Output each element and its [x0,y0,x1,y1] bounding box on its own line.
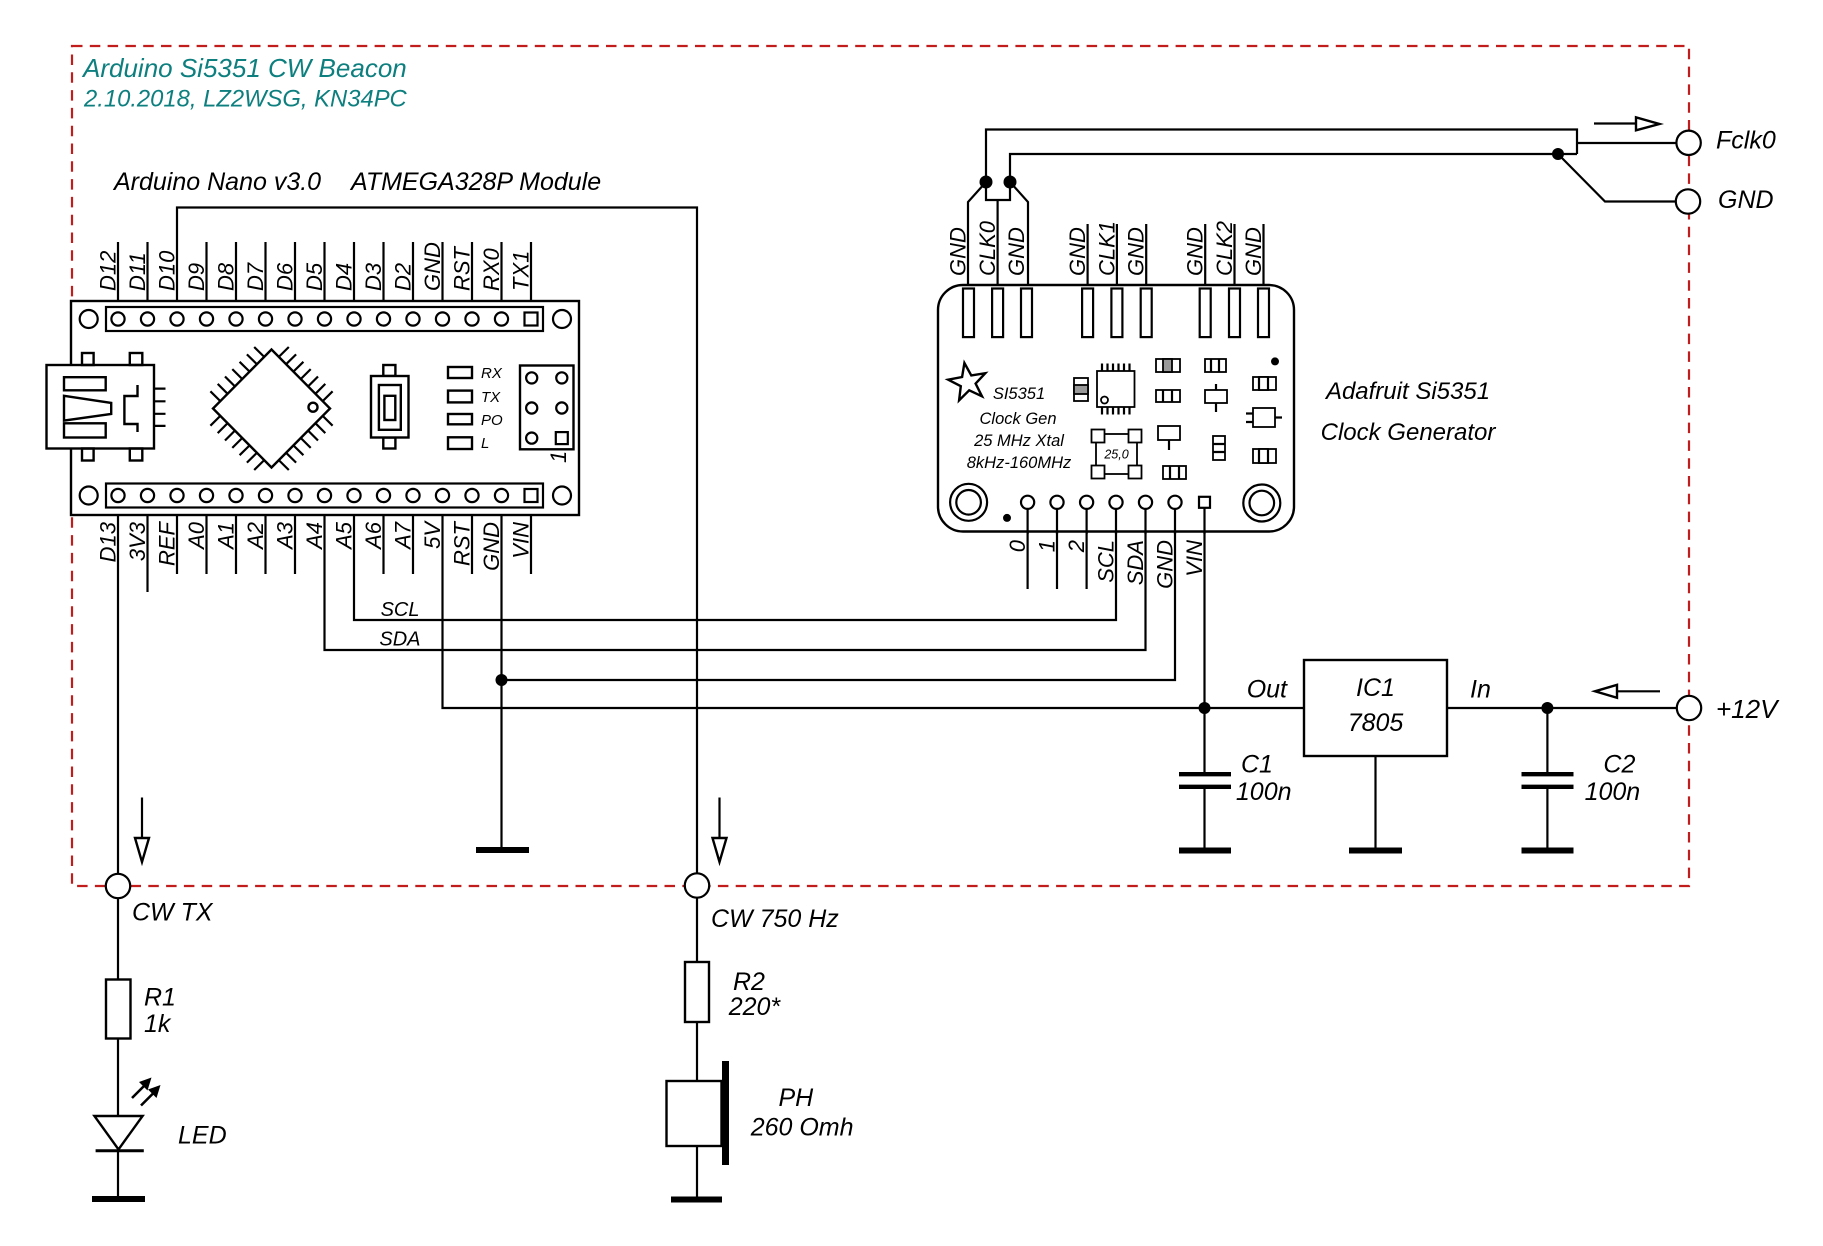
svg-text:GND: GND [1241,227,1266,276]
speaker PH [667,1061,730,1165]
Arduino top pin strip [106,307,543,331]
fiducial dot bottom left [1003,514,1011,522]
wire VIN Si5351 [1203,508,1205,708]
svg-text:GND: GND [1152,540,1177,589]
svg-text:D12: D12 [96,251,121,291]
wire to GND pin right [1010,182,1028,288]
wire CLK0 bridge to pins [986,182,1010,200]
svg-text:CLK0: CLK0 [975,220,1000,276]
svg-text:RX0: RX0 [479,247,504,291]
wire SDA: A4 to Si5351 SDA [325,502,1146,650]
svg-text:LED: LED [178,1122,227,1150]
svg-text:3V3: 3V3 [125,521,150,561]
svg-text:A7: A7 [391,521,416,551]
svg-text:1: 1 [1034,540,1059,552]
svg-text:GND: GND [1004,227,1029,276]
svg-text:GND: GND [1718,186,1774,214]
wire R2 to PH [696,1022,698,1081]
svg-text:RST: RST [450,245,475,291]
arrow into +12V [1595,685,1660,698]
svg-text:1k: 1k [144,1010,172,1038]
svg-text:GND: GND [1183,227,1208,276]
resistor R1 [106,980,131,1039]
svg-text:D10: D10 [155,250,180,291]
Adafruit star logo [948,363,985,400]
svg-text:SI5351: SI5351 [993,385,1045,403]
svg-text:5V: 5V [420,520,445,549]
resistor R2 [685,962,709,1022]
svg-text:A2: A2 [243,522,268,551]
terminal +12V [1677,696,1701,720]
mounting holes [80,310,98,328]
top pin row pads D12..TX1 [111,312,537,325]
svg-text:100n: 100n [1585,778,1641,806]
Si5351 CLK1/CLK2 group stubs [1088,224,1264,288]
Arduino bottom pin labels [96,520,534,571]
LED labels [481,365,503,452]
Si5351 bottom pin stubs inside module [1028,507,1205,534]
capacitor C2 [1522,708,1574,848]
USB connector [47,353,166,461]
svg-text:PH: PH [779,1084,815,1112]
ground symbol C1 [1179,848,1231,854]
svg-text:RX: RX [481,365,503,382]
svg-text:REF: REF [155,520,180,566]
svg-text:GND: GND [946,227,971,276]
svg-text:2.10.2018, LZ2WSG, KN34PC: 2.10.2018, LZ2WSG, KN34PC [83,86,408,113]
Arduino bottom pin stubs [148,502,532,592]
svg-text:ATMEGA328P Module: ATMEGA328P Module [349,168,601,196]
svg-text:25,0: 25,0 [1103,448,1128,462]
Si5351 top pin labels [946,220,1267,276]
svg-text:C1: C1 [1241,751,1273,779]
svg-text:GND: GND [1124,227,1149,276]
junction GND branch [496,674,508,686]
arrow down CW 750 [713,798,727,863]
svg-text:SCL: SCL [381,599,420,621]
wire D13 to CW TX node [117,502,119,874]
svg-text:2: 2 [1064,540,1089,553]
svg-text:Out: Out [1247,675,1288,703]
svg-text:7805: 7805 [1348,709,1404,737]
IC1 7805 regulator [1304,660,1447,756]
LED D1 [94,1078,160,1151]
svg-text:Adafruit Si5351: Adafruit Si5351 [1324,378,1490,405]
wire CLK0 shield net [1010,154,1577,182]
Si5351 pin 0 stub [1026,509,1028,589]
svg-text:Fclk0: Fclk0 [1716,127,1776,155]
arrow out of Fclk0 [1594,117,1660,130]
svg-text:8kHz-160MHz: 8kHz-160MHz [967,454,1072,472]
node CW TX [106,874,130,898]
svg-text:A4: A4 [302,522,327,551]
Si5351 top pin pads [963,289,1269,338]
svg-text:C2: C2 [1603,751,1635,779]
wire R1 to LED [117,1039,119,1117]
svg-text:1: 1 [546,451,571,463]
Arduino Nano module body [71,301,579,515]
Si5351 IC chip [1097,364,1135,415]
svg-text:GND: GND [479,522,504,571]
svg-text:Arduino Nano v3.0: Arduino Nano v3.0 [112,168,321,196]
wire CW750 to R2 [696,898,698,963]
Si5351 mounting hole left [950,484,987,521]
svg-text:D13: D13 [96,521,121,562]
wire D10 to CW 750 Hz node [177,208,697,874]
svg-text:D8: D8 [214,262,239,291]
svg-text:A3: A3 [273,521,298,551]
wire In / +12V rail [1447,707,1678,709]
Si5351 pin 1 stub [1056,509,1058,589]
junction shield [1552,148,1564,160]
svg-text:Clock Gen: Clock Gen [979,410,1056,428]
svg-text:SDA: SDA [1123,540,1148,585]
dashed boundary [72,46,1689,886]
SMD parts on module [1074,359,1282,479]
RX LED [448,367,472,378]
capacitor C1 [1179,708,1231,848]
Arduino top pin labels [96,242,534,291]
svg-text:220*: 220* [728,993,782,1021]
junction CLK0 right [1004,176,1017,189]
terminal Fclk0 [1676,131,1700,155]
svg-text:TX1: TX1 [509,251,534,291]
svg-text:SDA: SDA [379,629,420,651]
svg-text:L: L [481,435,489,452]
wire CW TX to R1 [117,898,119,980]
svg-text:D11: D11 [125,252,150,291]
Arduino bottom pin strip [106,484,543,508]
wire PH to ground [696,1146,698,1197]
svg-text:A5: A5 [332,521,357,551]
junction 5V / VIN / C1 [1199,702,1211,714]
svg-text:VIN: VIN [509,522,534,559]
wire IC1 ground [1374,756,1376,848]
Adafruit Si5351 module body [938,285,1294,532]
wire GND: Arduino GND to ground and Si5351 GND [500,502,502,847]
Si5351 silk text [967,385,1072,472]
ISP header [520,366,574,450]
Si5351 bottom pin labels [1005,539,1207,589]
svg-text:CW TX: CW TX [132,899,214,927]
wire LED to ground [117,1151,119,1196]
L LED [448,437,472,449]
ground symbol Arduino GND [476,847,529,853]
svg-text:+12V: +12V [1716,694,1780,724]
ATMEGA328P chip (diamond) [210,347,332,470]
node CW 750 Hz [685,873,709,897]
bottom pin row pads D13..VIN [111,489,537,502]
svg-text:Clock Generator: Clock Generator [1321,419,1497,446]
25 MHz crystal [1092,430,1142,479]
svg-text:A1: A1 [214,522,239,551]
svg-text:VIN: VIN [1182,540,1207,577]
svg-text:GND: GND [420,242,445,291]
svg-text:SCL: SCL [1093,540,1118,583]
Si5351 pin 2 stub [1085,509,1087,589]
svg-text:D6: D6 [273,262,298,291]
ground symbol LED [92,1196,145,1202]
wire SCL: A5 to Si5351 SCL [354,502,1116,620]
svg-text:TX: TX [481,389,501,406]
svg-text:CLK1: CLK1 [1094,221,1119,276]
svg-text:D9: D9 [184,263,209,291]
svg-text:IC1: IC1 [1356,674,1395,702]
wire shield to GND terminal [1558,154,1677,202]
fiducial dot top right [1271,357,1279,365]
svg-text:D3: D3 [361,262,386,291]
svg-text:100n: 100n [1236,778,1292,806]
arrow down CW TX [135,798,149,863]
Arduino top pin stubs [118,242,531,313]
svg-text:D2: D2 [391,263,416,291]
svg-text:A6: A6 [361,521,386,551]
ground symbol C2 [1522,848,1574,854]
svg-text:0: 0 [1005,539,1030,552]
svg-text:PO: PO [481,412,503,429]
junction CLK0 left [980,176,993,189]
junction In / C2 [1541,702,1553,714]
PO LED [448,414,472,424]
svg-text:CW 750 Hz: CW 750 Hz [711,905,839,933]
svg-text:RST: RST [450,520,475,566]
svg-text:D5: D5 [302,262,327,291]
terminal GND [1676,189,1700,213]
ground symbol IC1 [1349,848,1402,854]
svg-text:25 MHz Xtal: 25 MHz Xtal [973,432,1065,450]
svg-text:D4: D4 [332,263,357,291]
wire 5V / Out rail [443,502,1305,708]
Si5351 mounting hole right [1243,485,1280,522]
wire CLK0 net to Fclk0 terminal [986,130,1577,183]
svg-text:260 Omh: 260 Omh [750,1114,854,1142]
svg-text:R1: R1 [144,984,176,1012]
svg-text:CLK2: CLK2 [1212,221,1237,276]
svg-text:Arduino Si5351 CW Beacon: Arduino Si5351 CW Beacon [81,53,407,83]
ground symbol PH [671,1197,722,1203]
svg-text:GND: GND [1065,227,1090,276]
reset button [371,365,409,449]
wire to GND pin left [968,182,986,288]
TX LED [448,391,472,403]
svg-text:R2: R2 [733,968,765,996]
svg-text:A0: A0 [184,521,209,551]
svg-text:In: In [1470,675,1491,703]
Si5351 bottom pin pads 0,1,2,SCL,SDA,GND,VIN [1021,496,1210,509]
svg-text:D7: D7 [243,262,268,291]
